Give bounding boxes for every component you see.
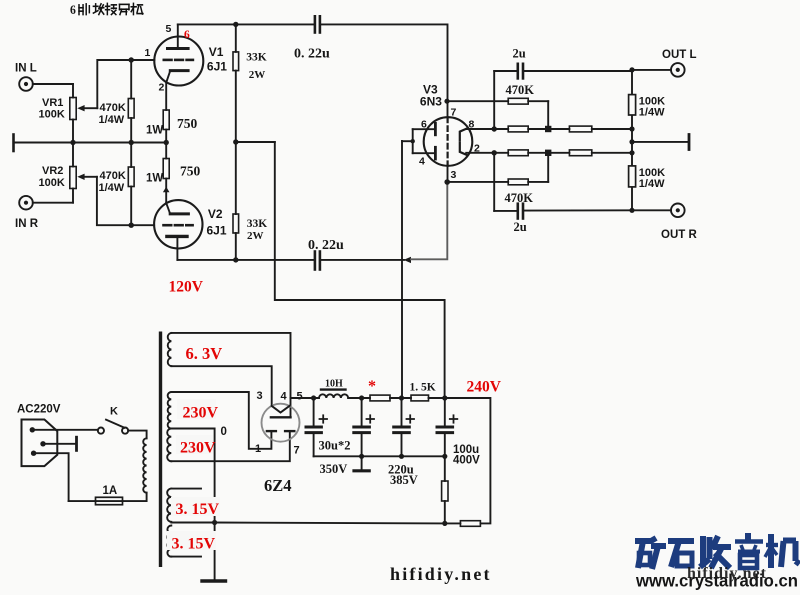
resistor 750 1W lower bbox=[163, 143, 169, 204]
svg-text:240V: 240V bbox=[467, 379, 502, 396]
svg-text:V2: V2 bbox=[208, 207, 223, 221]
node 470K bottom on bus bbox=[129, 140, 134, 145]
capacitor 0.22u lower bbox=[315, 252, 320, 270]
svg-text:750: 750 bbox=[177, 116, 198, 131]
switch K bbox=[98, 420, 128, 434]
svg-text:0: 0 bbox=[221, 426, 227, 438]
earth bar bbox=[43, 437, 77, 450]
secondary winding 230V lower bbox=[167, 429, 171, 462]
svg-text:2W: 2W bbox=[249, 69, 265, 81]
wire cap negative bus bbox=[314, 455, 445, 457]
wire row B mid bbox=[528, 128, 569, 130]
resistor 470K row A bbox=[508, 98, 548, 129]
capacitor 100u bbox=[437, 398, 453, 456]
wire 33K midpoint to B+ riser bbox=[236, 141, 275, 143]
resistor feedback horizontal bbox=[445, 521, 481, 527]
node heater tap bbox=[212, 520, 217, 525]
svg-text:1W: 1W bbox=[146, 125, 163, 137]
tube V3 6N3 bbox=[413, 117, 473, 166]
label 100K 1/4W lower bbox=[639, 167, 665, 190]
resistor 750 1W upper bbox=[163, 82, 169, 143]
ground bar bottom bbox=[202, 579, 226, 582]
resistor 470K 1/4W upper bbox=[128, 60, 134, 143]
capacitor 30u second bbox=[354, 398, 370, 456]
svg-text:*: * bbox=[368, 378, 376, 395]
svg-text:5: 5 bbox=[166, 23, 172, 35]
svg-text:100K: 100K bbox=[39, 177, 65, 189]
svg-text:230V: 230V bbox=[183, 405, 219, 422]
jack IN R bbox=[19, 196, 33, 210]
svg-text:470K: 470K bbox=[100, 102, 126, 114]
wire 240V loop right bbox=[445, 398, 491, 523]
potentiometer VR1 100K bbox=[70, 84, 98, 143]
svg-text:AC220V: AC220V bbox=[17, 404, 61, 416]
node V3 grid bracket bbox=[411, 139, 415, 143]
node row B out bbox=[629, 126, 634, 131]
label V2 6J1 bbox=[207, 207, 227, 238]
wire row B pin8 to out bbox=[466, 128, 508, 130]
plus sign cap4 bbox=[450, 415, 458, 422]
secondary winding 3.15V upper bbox=[167, 489, 171, 522]
svg-text:6: 6 bbox=[70, 3, 76, 18]
svg-text:33K: 33K bbox=[247, 218, 267, 230]
node V3 pin7 bbox=[444, 99, 449, 104]
wire OUT column bbox=[631, 70, 633, 210]
svg-text:1/4W: 1/4W bbox=[99, 182, 125, 194]
label 33K 2W lower bbox=[247, 218, 267, 242]
svg-text:VR1: VR1 bbox=[42, 97, 63, 109]
label 3.15V upper red bbox=[171, 497, 220, 516]
svg-text:350V: 350V bbox=[320, 462, 348, 476]
plus sign cap2 bbox=[367, 415, 375, 422]
transformer primary winding bbox=[143, 438, 146, 492]
wire V2 grid to VR2 wiper bbox=[97, 177, 154, 225]
svg-text:470K: 470K bbox=[506, 83, 535, 97]
wire ground bus y=142.5 bbox=[14, 142, 167, 144]
svg-text:hifidiy.net: hifidiy.net bbox=[390, 564, 492, 584]
resistor 1.5K bbox=[411, 395, 445, 401]
capacitor 2u upper bbox=[494, 64, 632, 79]
label 230V lower red bbox=[176, 435, 213, 454]
node row C left bbox=[492, 150, 497, 155]
node bus c4 bbox=[442, 454, 447, 459]
svg-text:3. 15V: 3. 15V bbox=[176, 501, 220, 518]
wire 6.3V bottom to pin3 bbox=[171, 366, 271, 406]
svg-text:100K: 100K bbox=[39, 109, 65, 121]
wire B+ riser x=402 bbox=[401, 141, 403, 398]
secondary winding 6.3V bbox=[168, 333, 172, 366]
svg-text:IN L: IN L bbox=[15, 63, 37, 75]
plus sign cap1 bbox=[320, 415, 328, 422]
node rail 2 bbox=[359, 395, 364, 400]
node bus c2 bbox=[359, 454, 364, 459]
resistor 100K 1/4W lower bbox=[629, 166, 636, 187]
resistor 470K row C bbox=[508, 150, 528, 156]
wire switch to transformer primary bbox=[128, 431, 146, 439]
inductor 10H choke bbox=[319, 390, 348, 398]
label VR1 100K bbox=[39, 97, 65, 121]
wire V2 plate y=259.9 bbox=[177, 259, 313, 261]
wire 2u column upper bbox=[493, 71, 495, 129]
capacitor 30u first bbox=[306, 398, 321, 456]
wire V1 plate rail y=24.4 bbox=[178, 23, 314, 25]
svg-text:1W: 1W bbox=[146, 173, 163, 185]
resistor 33K 2W upper bbox=[233, 24, 239, 142]
wire IN R to VR2 bbox=[33, 202, 73, 204]
label V3 6N3 bbox=[420, 83, 442, 109]
svg-text:385V: 385V bbox=[390, 473, 418, 487]
svg-text:230V: 230V bbox=[180, 440, 216, 457]
svg-text:V1: V1 bbox=[209, 45, 224, 59]
label VR2 100K bbox=[39, 165, 65, 189]
svg-text:400V: 400V bbox=[453, 455, 480, 467]
node 470K top on grid wire bbox=[129, 57, 134, 62]
wire primary to fuse bbox=[123, 493, 147, 501]
tube V1 6J1 bbox=[154, 24, 203, 85]
svg-text:0. 22u: 0. 22u bbox=[294, 47, 330, 62]
svg-text:1: 1 bbox=[255, 443, 261, 455]
node rail 240V bbox=[442, 395, 447, 400]
wire row C mid bbox=[528, 152, 569, 154]
wire bottom return to ground bbox=[215, 522, 445, 525]
wire row B to OUT L column bbox=[592, 128, 632, 130]
svg-text:OUT R: OUT R bbox=[661, 229, 697, 241]
wire to right ground bbox=[632, 141, 688, 143]
svg-text:1: 1 bbox=[145, 47, 151, 59]
svg-text:6: 6 bbox=[421, 119, 427, 131]
node 33K midpoint bbox=[233, 139, 238, 144]
plug prong bottom bbox=[31, 451, 36, 456]
label 33K 2W upper bbox=[246, 51, 266, 81]
ground tick right bbox=[688, 135, 691, 150]
node V3 pin3 bbox=[444, 179, 450, 185]
wire B+ rail from 6Z4 bbox=[291, 397, 320, 399]
svg-text:6. 3V: 6. 3V bbox=[186, 344, 223, 363]
svg-text:6N3: 6N3 bbox=[420, 95, 442, 109]
svg-text:4: 4 bbox=[419, 156, 425, 168]
svg-text:1/4W: 1/4W bbox=[639, 178, 665, 190]
wire 6.3V top to pin4 bbox=[171, 333, 290, 417]
svg-text:30u*2: 30u*2 bbox=[319, 439, 351, 453]
tube V2 6J1 bbox=[154, 200, 202, 260]
wire 0 tap bbox=[171, 429, 214, 581]
svg-text:OUT L: OUT L bbox=[662, 49, 697, 61]
svg-text:750: 750 bbox=[180, 164, 201, 179]
svg-text:5: 5 bbox=[297, 391, 303, 403]
wire B+ feed path bbox=[275, 142, 445, 398]
resistor bleeder vertical bbox=[442, 456, 448, 523]
potentiometer VR2 100K bbox=[70, 143, 97, 203]
node top rail 33K bbox=[233, 22, 238, 27]
svg-text:www.crystalradio.cn: www.crystalradio.cn bbox=[635, 571, 798, 591]
node rail 3 bbox=[399, 395, 404, 400]
svg-text:6J1: 6J1 bbox=[207, 224, 227, 238]
node 470K lower bottom on grid wire bbox=[129, 223, 134, 228]
node rail choke left bbox=[311, 395, 316, 400]
ground stub psu bbox=[354, 456, 369, 471]
wire 230V bottom to 6Z4 plate2 bbox=[171, 431, 289, 461]
svg-text:33K: 33K bbox=[246, 51, 266, 63]
svg-text:3. 15V: 3. 15V bbox=[172, 536, 216, 553]
jack OUT R bbox=[632, 204, 685, 218]
resistor 470K row D bbox=[508, 153, 548, 185]
wire 3.15V bottom lead bbox=[171, 556, 201, 558]
node 33K lower on V2 plate wire bbox=[233, 257, 238, 262]
fuse 1A bbox=[69, 497, 123, 504]
plus sign cap3 bbox=[407, 415, 415, 422]
svg-text:120V: 120V bbox=[169, 279, 204, 296]
svg-text:K: K bbox=[110, 406, 118, 418]
wire V3 pin3 stub bbox=[447, 166, 449, 183]
node bottom return bbox=[442, 521, 447, 526]
wire 2u column lower bbox=[493, 153, 495, 211]
svg-text:10H: 10H bbox=[325, 379, 343, 390]
wire row D pin3 to 470K bbox=[447, 181, 508, 183]
node row B mid bbox=[545, 126, 551, 132]
node row B left bbox=[492, 126, 497, 131]
node ground mid bbox=[629, 139, 634, 144]
node out top bbox=[629, 67, 634, 72]
svg-text:7: 7 bbox=[451, 107, 457, 119]
svg-text:2u: 2u bbox=[514, 220, 527, 234]
wire grey pin3 link bbox=[411, 182, 447, 259]
node 750 junction on bus bbox=[164, 140, 169, 145]
svg-text:3: 3 bbox=[451, 169, 457, 181]
wire live to switch bbox=[32, 429, 98, 431]
svg-text:VR2: VR2 bbox=[42, 165, 63, 177]
resistor row B right bbox=[569, 126, 591, 132]
svg-text:1/4W: 1/4W bbox=[99, 114, 125, 126]
resistor star bbox=[370, 395, 411, 401]
svg-text:IN R: IN R bbox=[15, 218, 39, 230]
node row C mid bbox=[545, 150, 551, 156]
wire row C to OUT R column bbox=[592, 152, 632, 154]
svg-text:470K: 470K bbox=[100, 170, 126, 182]
label 100K 1/4W upper bbox=[639, 96, 665, 119]
secondary winding 230V upper bbox=[168, 392, 172, 429]
resistor 33K 2W lower bbox=[233, 142, 239, 260]
AC plug bbox=[22, 420, 58, 467]
plug prong mid bbox=[40, 441, 45, 446]
wire 230V top to 6Z4 plate1 bbox=[171, 392, 271, 449]
svg-text:2: 2 bbox=[159, 82, 165, 94]
resistor 470K 1/4W lower bbox=[128, 143, 134, 226]
capacitor 220u bbox=[394, 398, 410, 456]
wire V3 bracket to riser bbox=[402, 140, 413, 142]
svg-text:2u: 2u bbox=[513, 47, 526, 61]
wire heater center tap bbox=[171, 522, 214, 524]
svg-text:6J1: 6J1 bbox=[207, 60, 227, 74]
label 3.15V lower red bbox=[167, 531, 216, 550]
plug prong top bbox=[30, 427, 35, 432]
wire IN L to VR1 bbox=[33, 83, 73, 85]
capacitor 2u lower bbox=[494, 204, 632, 219]
secondary winding 3.15V lower bbox=[167, 526, 171, 557]
wire rail choke to star resistor bbox=[348, 397, 370, 399]
svg-text:6Z4: 6Z4 bbox=[264, 476, 292, 495]
svg-text:1. 5K: 1. 5K bbox=[410, 382, 436, 394]
wire row C pin2 to out bbox=[466, 152, 508, 154]
transformer core bbox=[159, 332, 162, 568]
node VR1 bottom on bus bbox=[70, 140, 75, 145]
jack OUT L bbox=[632, 63, 685, 77]
label V1 6J1 bbox=[207, 45, 227, 74]
logo kuangshi radio blue glyphs bbox=[635, 533, 800, 569]
wire V1 grid to VR1 wiper bbox=[97, 60, 154, 108]
resistor 100K 1/4W upper bbox=[629, 95, 636, 115]
capacitor 0.22u upper bbox=[315, 16, 320, 32]
node row C out bbox=[629, 150, 634, 155]
svg-text:4: 4 bbox=[281, 391, 288, 403]
label 230V upper red bbox=[177, 399, 216, 419]
wire cap lower to grid node with arrow bbox=[321, 257, 411, 263]
arrow on V2 cathode wire bbox=[163, 187, 170, 192]
wire 3.15V top lead bbox=[171, 488, 201, 490]
wire cap to V3 pin7 corner bbox=[321, 24, 447, 117]
svg-text:0. 22u: 0. 22u bbox=[308, 238, 344, 253]
svg-text:2W: 2W bbox=[247, 230, 264, 242]
jack IN L bbox=[19, 77, 33, 91]
label 470K 1/4W lower bbox=[99, 170, 126, 194]
wire row A pin7 to 470K bbox=[447, 100, 508, 102]
node out bottom bbox=[629, 208, 634, 213]
ground tick left end of bus bbox=[12, 135, 15, 152]
wire fuse to plug neutral bbox=[34, 453, 69, 501]
node bus c3 bbox=[399, 454, 404, 459]
svg-text:7: 7 bbox=[294, 445, 300, 457]
title 6 pin mod note bbox=[70, 3, 143, 18]
svg-text:1A: 1A bbox=[103, 485, 118, 497]
resistor row C right bbox=[569, 150, 591, 156]
tube 6Z4 bbox=[262, 404, 300, 442]
resistor 470K row B bbox=[508, 126, 528, 132]
label 470K 1/4W upper bbox=[99, 102, 126, 126]
svg-text:6: 6 bbox=[184, 29, 190, 41]
svg-text:1/4W: 1/4W bbox=[639, 107, 665, 119]
svg-text:3: 3 bbox=[257, 390, 263, 402]
